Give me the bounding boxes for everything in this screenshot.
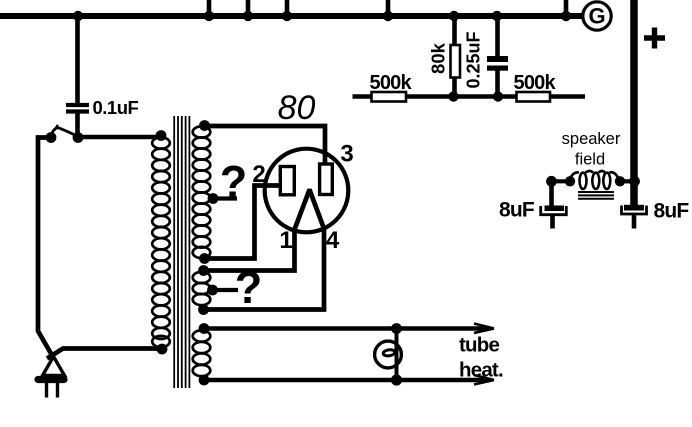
svg-text:1: 1 <box>279 227 292 254</box>
switch S1 blade barb <box>55 125 59 130</box>
inductor L1 speaker field coil <box>570 171 620 189</box>
wire: stub up at x287 <box>285 0 290 16</box>
node: lamp bottom junction <box>391 374 402 385</box>
wire: pin 4 to 5V bottom <box>204 229 325 310</box>
transformer T1 5V winding <box>193 272 211 305</box>
resistor R2 80k body <box>451 45 461 78</box>
wire: bus down to C2 <box>495 16 500 57</box>
transformer T1 core <box>174 116 189 388</box>
node: C3 top <box>546 176 557 187</box>
node: B+ line junction <box>629 176 640 187</box>
wire: pin 1 to 5V top <box>204 229 295 271</box>
wire: C1 down to switch node <box>75 111 80 138</box>
node: bus junction at x454 <box>449 11 459 21</box>
transformer T1 heater winding <box>193 330 211 376</box>
lamp DS1 envelope <box>375 341 402 368</box>
node: switch left contact <box>46 132 57 143</box>
wire: L1 left link <box>552 179 571 183</box>
node: bus junction at x78 <box>73 11 83 21</box>
node: switch right contact <box>73 132 84 143</box>
plug P1 cap triangle <box>43 357 65 376</box>
lamp DS1 filament loop <box>383 349 395 357</box>
wire: stub up at x388 <box>386 0 391 16</box>
svg-text:80: 80 <box>278 89 316 127</box>
node: L1 right inner <box>615 176 625 186</box>
svg-text:0.25uF: 0.25uF <box>464 31 484 88</box>
node: bus junction at x248 <box>243 11 253 21</box>
svg-text:8uF: 8uF <box>499 199 535 222</box>
node: bus junction at x287 <box>282 11 292 21</box>
wire: C2 to lower rail <box>495 70 500 97</box>
tube V1 anode plate right <box>320 164 333 195</box>
svg-text:G: G <box>588 4 605 29</box>
tube V1 anode plate left <box>280 167 294 195</box>
wire: divider lower rail <box>353 94 586 99</box>
node: lamp top junction <box>391 323 402 334</box>
node: L1 left inner <box>565 176 575 186</box>
wire: bus down to R2 80k <box>452 16 457 46</box>
wire: heater bottom line <box>204 378 490 383</box>
transformer T1 primary winding <box>152 137 170 347</box>
svg-text:4: 4 <box>326 227 340 254</box>
svg-text:500k: 500k <box>370 72 413 94</box>
capacitor C2 0.25uF plates <box>487 56 508 71</box>
svg-text:heat.: heat. <box>459 359 503 382</box>
wire: L1 right link <box>620 179 635 183</box>
wire: stub up at x209 <box>207 0 212 16</box>
wire: R2 to lower rail <box>452 77 457 97</box>
node: bus junction at x566 <box>561 11 571 21</box>
tube V1 filament <box>294 191 324 230</box>
node: bus junction at x388 <box>383 11 393 21</box>
svg-text:0.1uF: 0.1uF <box>93 97 139 118</box>
wire: 5V tap stub <box>213 288 239 292</box>
capacitor C4 8uF right top plate <box>624 205 644 211</box>
wire: heater bottom arrowhead <box>474 375 494 385</box>
wire: switch left down leg <box>38 138 53 358</box>
wire: top B+ bus <box>0 13 583 19</box>
plug P1 body bar <box>38 376 64 383</box>
label + polarity <box>644 28 665 49</box>
wire: bus down to C1 <box>75 16 80 103</box>
capacitor C4 8uF right bottom cup <box>622 206 647 215</box>
wire: C3 bottom lead <box>550 215 555 229</box>
wire: stub up at x566 <box>564 0 569 16</box>
node: primary top terminal <box>156 130 167 141</box>
svg-text:?: ? <box>220 157 248 208</box>
wire: HV top to pin 3 <box>205 126 326 165</box>
wire: B+ output line <box>630 0 638 206</box>
wire: C4 bottom lead <box>632 214 637 228</box>
capacitor C3 8uF left top plate <box>545 206 565 212</box>
inductor L1 core lines <box>578 192 614 199</box>
wire: stub up at x248 <box>246 0 251 16</box>
wire: plug to primary bottom <box>47 349 163 359</box>
transformer T1 HV secondary winding <box>193 126 211 258</box>
svg-text:tube: tube <box>459 334 499 357</box>
plug P1 prong right <box>56 383 59 398</box>
node: 5V top terminal <box>198 265 209 276</box>
svg-text:8uF: 8uF <box>654 200 690 223</box>
svg-text:3: 3 <box>340 141 353 168</box>
node: HV center tap <box>208 193 219 204</box>
svg-text:field: field <box>575 151 605 169</box>
node: bus junction at x209 <box>204 11 214 21</box>
svg-text:speaker: speaker <box>562 130 621 148</box>
plug P1 prong left <box>45 383 48 398</box>
switch S1 blade <box>51 128 76 137</box>
wire: pin 2 to HV bottom <box>205 186 282 259</box>
node: HV top terminal <box>199 120 210 131</box>
capacitor C1 0.1uF plates <box>66 105 89 112</box>
node: HV bottom terminal <box>199 253 210 264</box>
wire: C3 lead down <box>549 181 554 206</box>
capacitor C3 8uF left bottom cup <box>541 206 567 215</box>
wire: heater top arrowhead <box>474 324 494 334</box>
resistor R3 500k body <box>517 92 551 102</box>
terminal G1 circle <box>583 2 611 30</box>
wire: HV tap stub <box>213 196 237 200</box>
node: heater bottom terminal <box>199 375 210 386</box>
svg-text:80k: 80k <box>428 42 449 74</box>
node: R2 lower junction <box>448 91 458 101</box>
node: heater top terminal <box>199 323 210 334</box>
node: 5V bottom terminal <box>198 304 209 315</box>
wire: lamp link <box>395 329 399 381</box>
resistor R1 500k body <box>372 92 407 102</box>
svg-text:500k: 500k <box>514 72 557 94</box>
svg-text:2: 2 <box>252 161 265 188</box>
wire: switch to primary top <box>78 135 162 140</box>
node: C2 lower junction <box>493 91 503 101</box>
tube V1 envelope circle <box>265 149 349 233</box>
node: bus junction at x497 <box>492 11 502 21</box>
node: primary bottom terminal <box>157 344 168 355</box>
node: 5V center tap <box>207 285 218 296</box>
wire: heater top line <box>204 326 490 331</box>
